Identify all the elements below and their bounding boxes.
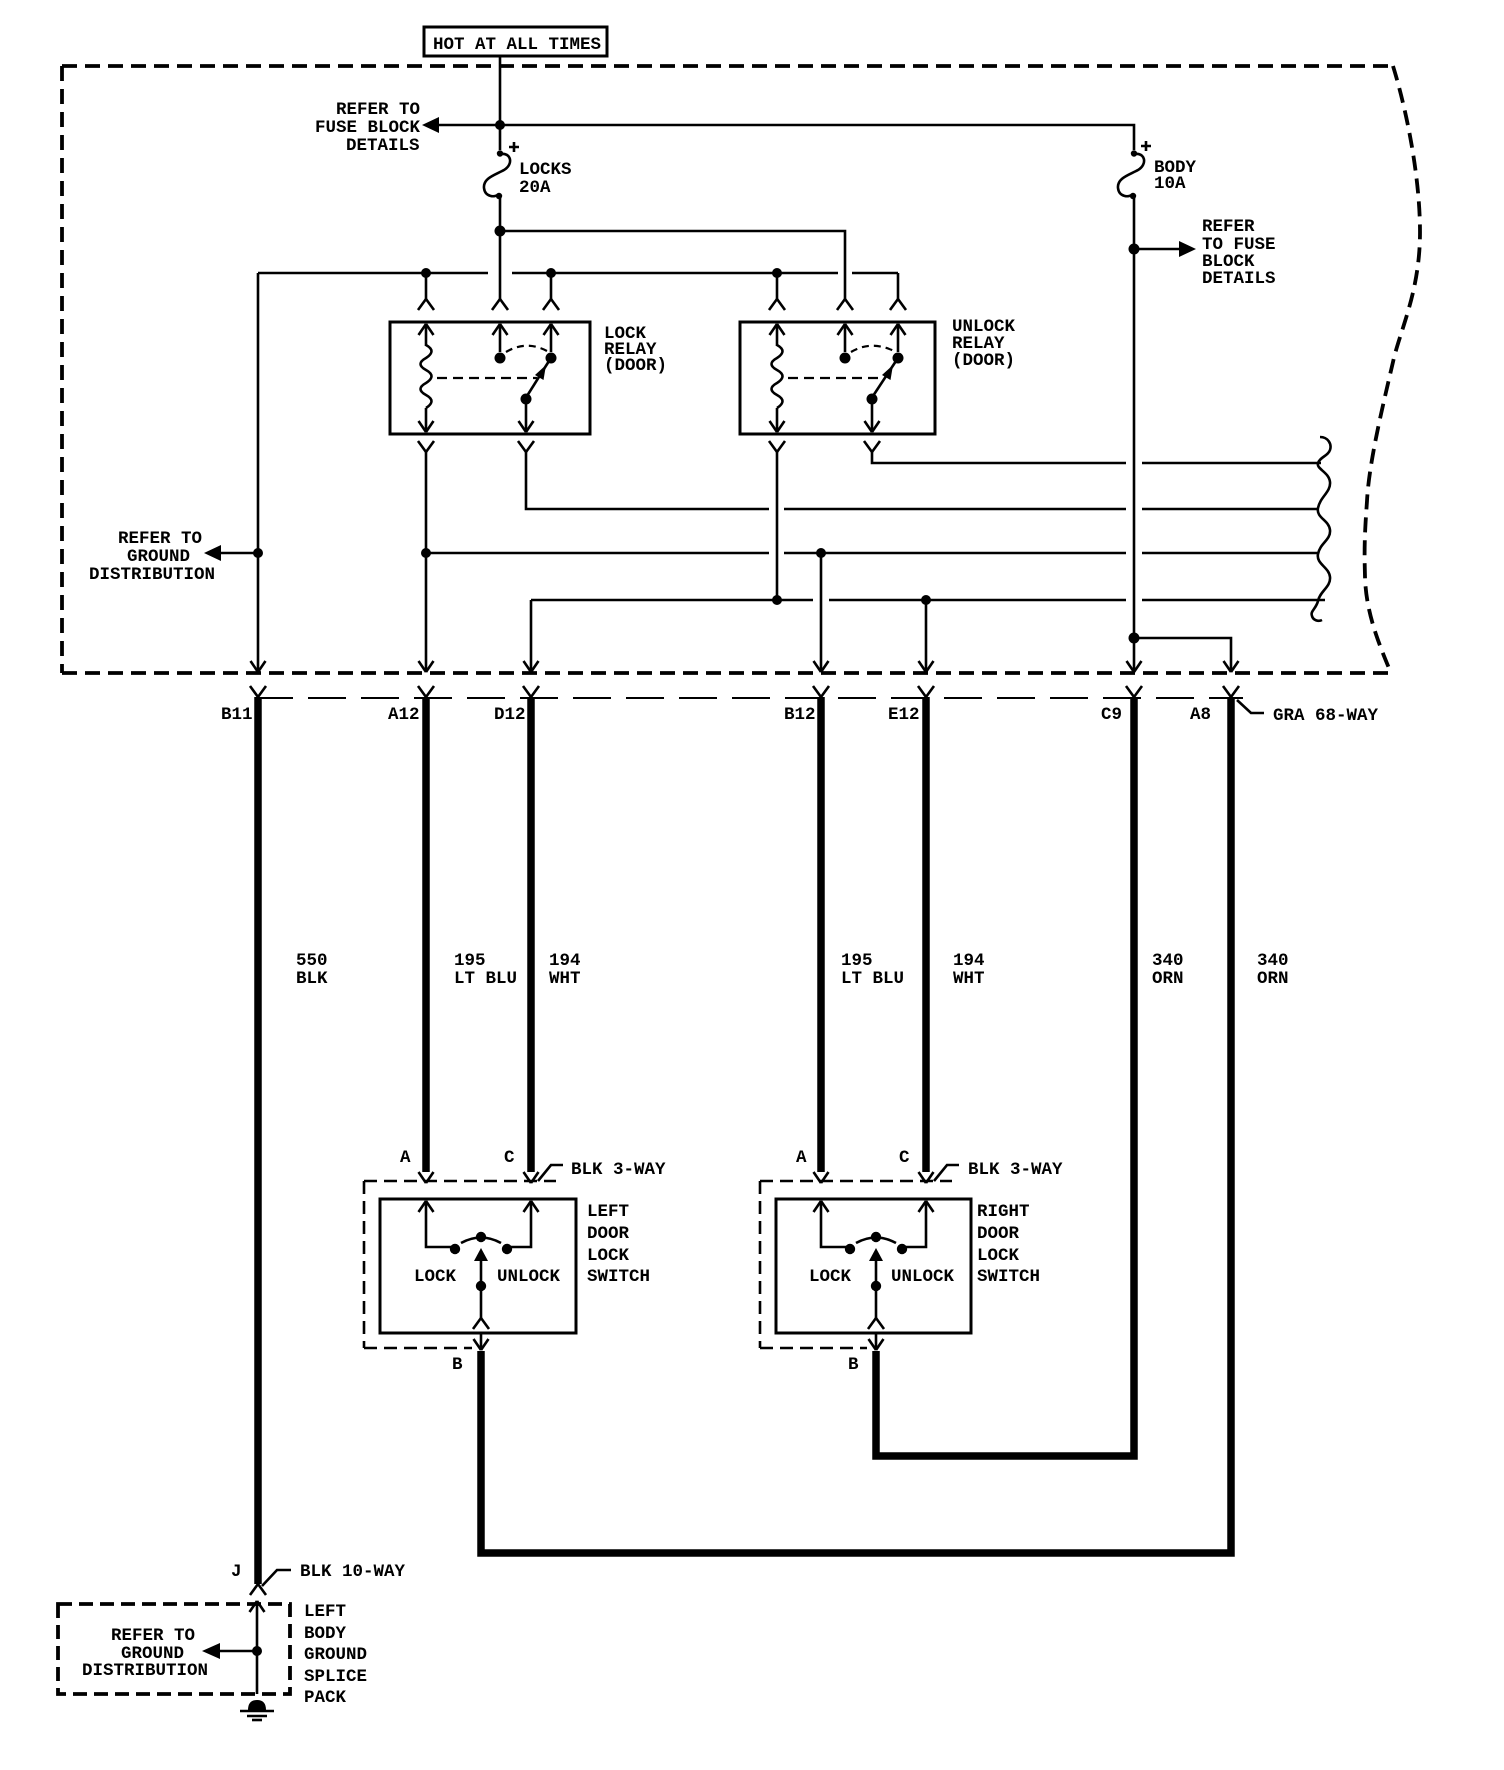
wire from HOT AT ALL TIMES down to fuse LOCKS	[499, 56, 502, 150]
wire stub down to lock relay coil pin	[418, 273, 434, 310]
svg-text:WHT: WHT	[953, 969, 985, 989]
svg-text:B: B	[848, 1355, 859, 1375]
svg-text:E12: E12	[888, 705, 920, 725]
svg-text:A8: A8	[1190, 705, 1211, 725]
connector BLK 3-WAY outline (right door)	[760, 1181, 952, 1348]
fuse LOCKS 20A	[484, 142, 572, 199]
circuit-continuation break squiggle	[1312, 437, 1331, 621]
wire feed to unlock relay centre pin	[500, 231, 845, 299]
wire B12 drop from node (821,553) to connector	[820, 553, 823, 671]
svg-text:BLK: BLK	[296, 969, 328, 989]
node junction at (821,553)	[816, 548, 826, 558]
svg-text:194: 194	[953, 951, 985, 971]
label UNLOCK RELAY (DOOR)	[952, 317, 1016, 371]
svg-text:340: 340	[1257, 951, 1289, 971]
svg-text:ORN: ORN	[1152, 969, 1184, 989]
label REFER TO GROUND DISTRIBUTION (lower)	[82, 1626, 208, 1681]
node junction at (500,125)	[495, 120, 505, 130]
node junction at (926,600)	[921, 595, 931, 605]
connector fork below lock relay switch	[518, 441, 534, 452]
wire 340 ORN (circuit A8) to left switch B	[481, 697, 1231, 1553]
node junction at (257,1651)	[252, 1646, 262, 1656]
ground symbol	[240, 1700, 274, 1720]
svg-text:RIGHT: RIGHT	[977, 1202, 1030, 1222]
svg-text:LEFT: LEFT	[587, 1202, 629, 1222]
svg-text:J: J	[231, 1562, 242, 1582]
wire from junction to BODY fuse	[500, 125, 1134, 150]
node junction at (426,553)	[421, 548, 431, 558]
wire 195 LT BLU left (circuit A12)	[422, 697, 430, 1172]
svg-text:D12: D12	[494, 705, 526, 725]
connector leader and label BLK 3-WAY (right)	[934, 1160, 1063, 1181]
svg-text:A12: A12	[388, 705, 420, 725]
svg-text:340: 340	[1152, 951, 1184, 971]
connector arrows at boundary (B11 A12 D12 B12 E12 C9 A8)	[251, 661, 1239, 672]
svg-text:B12: B12	[784, 705, 816, 725]
svg-text:194: 194	[549, 951, 581, 971]
svg-text:DISTRIBUTION: DISTRIBUTION	[82, 1661, 208, 1681]
wire 195 LT BLU right (circuit B12)	[817, 697, 825, 1172]
connector fork unlock relay centre pin	[837, 299, 853, 310]
dashed box REFER TO GROUND DISTRIBUTION (splice pack)	[58, 1604, 290, 1694]
svg-text:LOCK: LOCK	[809, 1267, 852, 1287]
svg-text:(DOOR): (DOOR)	[604, 356, 667, 376]
wire 340 ORN (circuit C9) to right switch B	[876, 697, 1134, 1456]
svg-text:LOCKS: LOCKS	[519, 160, 572, 180]
svg-text:BLK 10-WAY: BLK 10-WAY	[300, 1562, 406, 1582]
svg-text:FUSE BLOCK: FUSE BLOCK	[315, 118, 421, 138]
svg-text:UNLOCK: UNLOCK	[497, 1267, 561, 1287]
svg-text:C9: C9	[1101, 705, 1122, 725]
svg-text:REFER: REFER	[1202, 217, 1255, 237]
svg-text:GROUND: GROUND	[127, 547, 190, 567]
connector leader and label BLK 3-WAY (left)	[538, 1160, 666, 1181]
connector GRA 68-WAY row dashed line	[255, 697, 1243, 699]
connector fork unlock relay switch pin	[890, 299, 906, 310]
svg-text:LEFT: LEFT	[304, 1602, 346, 1622]
svg-text:ORN: ORN	[1257, 969, 1289, 989]
svg-text:LOCK: LOCK	[977, 1246, 1020, 1266]
node junction at (258,553)	[253, 548, 263, 558]
connector arrow into ground splice pack	[250, 1601, 265, 1694]
svg-text:195: 195	[454, 951, 486, 971]
wire branch to A8 connector	[1134, 638, 1231, 671]
label LEFT BODY GROUND SPLICE PACK	[304, 1602, 367, 1708]
wire 194 WHT left (circuit D12)	[527, 697, 535, 1172]
svg-text:DOOR: DOOR	[587, 1224, 630, 1244]
svg-text:LT BLU: LT BLU	[841, 969, 904, 989]
wire arrow to ground distribution text	[202, 1643, 257, 1659]
label 340 ORN	[1152, 951, 1184, 989]
label REFER TO GROUND DISTRIBUTION (upper)	[89, 529, 215, 585]
connector fork below lock relay coil	[418, 441, 434, 452]
svg-text:10A: 10A	[1154, 174, 1186, 194]
svg-text:20A: 20A	[519, 178, 551, 198]
svg-text:SWITCH: SWITCH	[587, 1267, 650, 1287]
node junction at (426,273)	[421, 268, 431, 278]
wire unlock relay switch output to row y=463	[872, 452, 1321, 463]
connector leader and label BLK 10-WAY	[262, 1562, 406, 1586]
svg-text:195: 195	[841, 951, 873, 971]
svg-text:SPLICE: SPLICE	[304, 1667, 367, 1687]
label RIGHT DOOR LOCK SWITCH	[977, 1202, 1040, 1287]
svg-text:HOT AT ALL TIMES: HOT AT ALL TIMES	[433, 35, 601, 55]
wire fuse LOCKS to junction (500,231)	[499, 198, 502, 231]
dashed power-distribution boundary box	[62, 66, 1420, 673]
connector leader and label GRA 68-WAY	[1237, 700, 1379, 726]
wire stub down to lock relay centre pin	[492, 231, 508, 310]
wire arrow to REFER TO FUSE BLOCK DETAILS (right)	[1134, 241, 1196, 257]
node junction at (1134,249)	[1129, 244, 1140, 255]
wire stub down to unlock relay coil pin	[769, 273, 785, 310]
wire lock relay coil down to node (426,553) and connector A12	[425, 452, 428, 671]
connector arrow left switch pin B	[474, 1333, 489, 1350]
label 340 ORN	[1257, 951, 1289, 989]
node junction at (1134,638)	[1129, 633, 1140, 644]
label REFER TO FUSE BLOCK DETAILS (right)	[1202, 217, 1276, 289]
connector arrows into door switch connectors	[419, 1172, 934, 1183]
switch RIGHT DOOR LOCK SWITCH	[776, 1199, 971, 1333]
wire B11 vertical from bus y=273 to connector	[257, 273, 260, 671]
node junction at (777,600)	[772, 595, 782, 605]
wire 194 WHT right (circuit E12)	[922, 697, 930, 1172]
svg-text:REFER TO: REFER TO	[336, 100, 420, 120]
svg-text:DISTRIBUTION: DISTRIBUTION	[89, 565, 215, 585]
wire distribution bus y=273 (B11 to relay pins)	[258, 273, 898, 299]
label 195 LT BLU	[841, 951, 904, 989]
svg-text:LOCK: LOCK	[414, 1267, 457, 1287]
label LOCK / UNLOCK (right switch)	[809, 1267, 955, 1287]
wire stub down to lock relay switch pin	[543, 273, 559, 310]
relay UNLOCK RELAY (DOOR)	[740, 322, 935, 434]
svg-text:WHT: WHT	[549, 969, 581, 989]
svg-text:DETAILS: DETAILS	[346, 136, 420, 156]
svg-text:B11: B11	[221, 705, 253, 725]
svg-text:BLK 3-WAY: BLK 3-WAY	[571, 1160, 666, 1180]
connector fork at end of wire 550 BLK	[250, 1584, 266, 1595]
svg-text:A: A	[796, 1148, 807, 1168]
connector fork below unlock relay coil	[769, 441, 785, 452]
wire arrow to REFER TO FUSE BLOCK DETAILS (left)	[422, 117, 500, 133]
connector arrow right switch pin B	[869, 1333, 884, 1350]
fuse BODY 10A	[1118, 141, 1197, 199]
label 194 WHT	[549, 951, 581, 989]
svg-text:GRA 68-WAY: GRA 68-WAY	[1273, 706, 1379, 726]
svg-text:REFER TO: REFER TO	[111, 1626, 195, 1646]
svg-text:UNLOCK: UNLOCK	[891, 1267, 955, 1287]
wire D12 drop from row y=600 to connector	[530, 600, 533, 671]
svg-text:DOOR: DOOR	[977, 1224, 1020, 1244]
svg-text:550: 550	[296, 951, 328, 971]
label LOCK / UNLOCK (left switch)	[414, 1267, 561, 1287]
connector BLK 3-WAY outline (left door)	[364, 1181, 556, 1348]
svg-text:SWITCH: SWITCH	[977, 1267, 1040, 1287]
node junction at (777,273)	[772, 268, 782, 278]
wire fuse BODY down through rows to node (1134,638)	[1133, 198, 1136, 638]
node junction at (551,273)	[546, 268, 556, 278]
wire row y=553 from node (426,553) to break symbol	[426, 552, 1318, 555]
connector pin labels row	[221, 705, 1211, 725]
svg-text:PACK: PACK	[304, 1688, 347, 1708]
svg-text:LT BLU: LT BLU	[454, 969, 517, 989]
switch LEFT DOOR LOCK SWITCH	[380, 1199, 576, 1333]
label LOCK RELAY (DOOR)	[604, 324, 667, 376]
node junction at (500,231)	[495, 226, 506, 237]
label 195 LT BLU	[454, 951, 517, 989]
wire unlock relay coil down to node (777,600)	[776, 452, 779, 600]
svg-text:C: C	[899, 1148, 910, 1168]
relay LOCK RELAY (DOOR)	[390, 322, 590, 434]
svg-text:DETAILS: DETAILS	[1202, 269, 1276, 289]
wire row y=600 from D12 drop to break symbol	[531, 599, 1325, 602]
wire lock relay switch output to row y=509	[526, 452, 1318, 509]
svg-text:A: A	[400, 1148, 411, 1168]
svg-text:REFER TO: REFER TO	[118, 529, 202, 549]
label 550 BLK	[296, 951, 328, 989]
svg-text:BLK 3-WAY: BLK 3-WAY	[968, 1160, 1063, 1180]
wire 550 BLK (circuit B11)	[254, 697, 262, 1584]
connector fork below unlock relay switch	[864, 441, 880, 452]
svg-text:GROUND: GROUND	[304, 1645, 367, 1665]
wire arrow to REFER TO GROUND DISTRIBUTION (upper)	[204, 545, 258, 561]
svg-text:(DOOR): (DOOR)	[952, 351, 1015, 371]
label 194 WHT	[953, 951, 985, 989]
label LEFT DOOR LOCK SWITCH	[587, 1202, 650, 1287]
svg-text:C: C	[504, 1148, 515, 1168]
label box HOT AT ALL TIMES	[424, 27, 607, 56]
connector forks at tops of harness wires	[250, 686, 1239, 697]
wire E12 drop from node (926,600) to connector	[925, 600, 928, 671]
wire C9 drop to connector	[1133, 638, 1136, 671]
svg-text:BODY: BODY	[304, 1624, 347, 1644]
svg-text:LOCK: LOCK	[587, 1246, 630, 1266]
svg-text:B: B	[452, 1355, 463, 1375]
label REFER TO FUSE BLOCK DETAILS (left)	[315, 100, 421, 156]
